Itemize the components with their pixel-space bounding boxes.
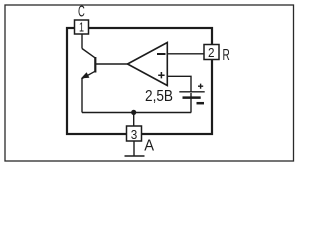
wire battery negative down [190,93,192,113]
IC body outline [67,28,212,134]
wire bottom rail to battery [82,112,191,114]
transistor VT1 base bar [94,57,96,73]
op-amp non-inverting input mark [158,72,164,78]
wire collector stub from pin 1 [81,34,83,49]
pin 1 box [75,20,89,34]
emitter arrowhead [81,72,90,78]
transistor VT1 emitter lead [82,71,95,78]
wire emitter down [81,78,83,113]
pin 2 box [204,45,219,60]
junction node [131,110,136,115]
wire node to pin 3 [133,113,135,128]
op-amp inverting input mark [157,53,166,55]
op-amp U1 triangle [128,43,168,86]
svg-text:R: R [223,47,230,64]
svg-text:2: 2 [208,46,215,60]
wire non-inverting input to reference [167,76,191,91]
svg-text:2,5В: 2,5В [145,88,173,105]
svg-text:C: C [78,4,85,21]
reference source GB1 negative plate [183,96,201,99]
svg-text:1: 1 [79,21,84,35]
reference source GB1 positive plate [179,91,204,93]
wire base to op-amp output [96,63,128,65]
terminal bar below pin 3 [125,155,145,157]
svg-text:3: 3 [131,128,138,142]
plus polarity mark [198,84,203,89]
svg-text:A: A [144,137,154,154]
minus polarity mark [197,102,205,105]
wire pin 3 to terminal [133,141,135,156]
transistor VT1 collector lead [82,49,95,58]
outer border frame [5,5,294,161]
pin 3 box [127,126,142,141]
wire inverting input to pin 2 [167,53,204,55]
